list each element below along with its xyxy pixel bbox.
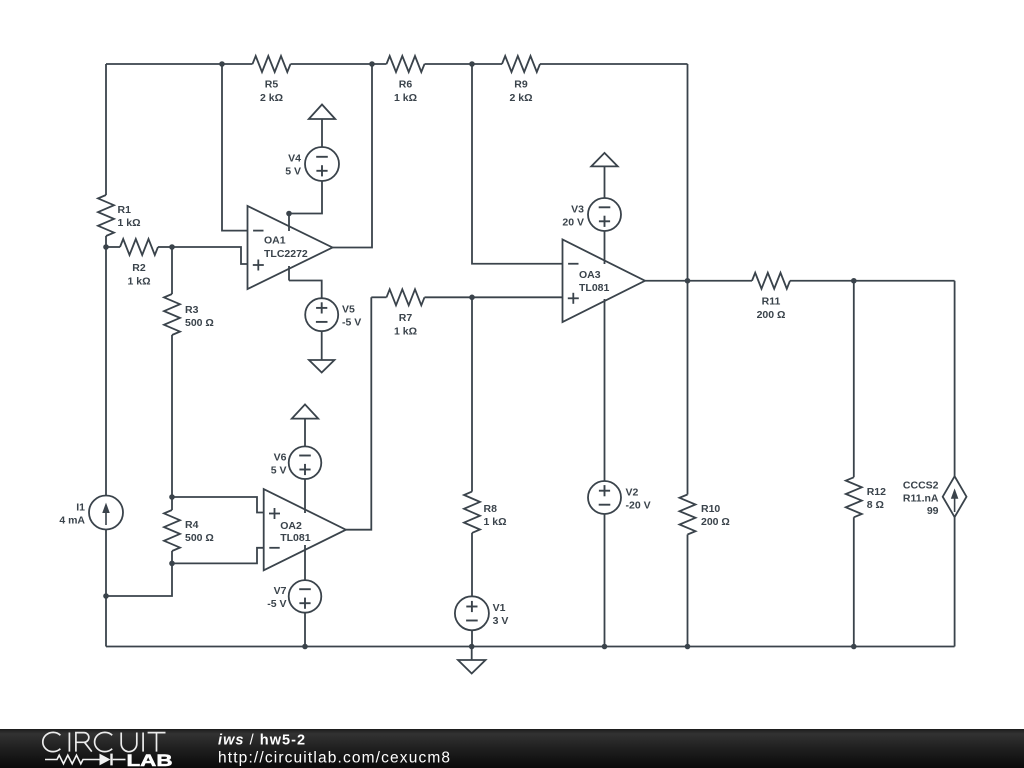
svg-text:4 mA: 4 mA bbox=[59, 514, 85, 526]
svg-text:99: 99 bbox=[927, 505, 939, 517]
svg-text:R11.nA: R11.nA bbox=[903, 492, 939, 504]
svg-text:-20 V: -20 V bbox=[626, 499, 651, 511]
svg-text:5 V: 5 V bbox=[285, 166, 301, 178]
svg-text:3 V: 3 V bbox=[493, 615, 509, 627]
svg-text:1 kΩ: 1 kΩ bbox=[394, 92, 417, 104]
svg-text:iws / hw5-2: iws / hw5-2 bbox=[218, 733, 306, 749]
svg-text:R2: R2 bbox=[132, 262, 146, 274]
svg-text:I1: I1 bbox=[76, 501, 85, 513]
svg-text:2 kΩ: 2 kΩ bbox=[509, 92, 532, 104]
svg-text:200 Ω: 200 Ω bbox=[701, 516, 730, 528]
svg-text:OA1: OA1 bbox=[264, 235, 286, 247]
svg-text:-5 V: -5 V bbox=[342, 317, 361, 329]
svg-text:R6: R6 bbox=[399, 79, 413, 91]
svg-text:CCCS2: CCCS2 bbox=[903, 479, 939, 491]
svg-text:V4: V4 bbox=[288, 153, 301, 165]
svg-text:1 kΩ: 1 kΩ bbox=[394, 325, 417, 337]
svg-text:V6: V6 bbox=[274, 452, 287, 464]
svg-text:TL081: TL081 bbox=[280, 532, 311, 544]
svg-text:2 kΩ: 2 kΩ bbox=[260, 92, 283, 104]
svg-text:LAB: LAB bbox=[127, 752, 173, 768]
svg-text:V3: V3 bbox=[571, 203, 584, 215]
svg-text:20 V: 20 V bbox=[562, 216, 584, 228]
svg-text:R10: R10 bbox=[701, 503, 720, 515]
svg-text:TL081: TL081 bbox=[579, 282, 610, 294]
svg-text:1 kΩ: 1 kΩ bbox=[484, 516, 507, 528]
svg-text:8 Ω: 8 Ω bbox=[867, 499, 884, 511]
svg-text:1 kΩ: 1 kΩ bbox=[118, 217, 141, 229]
svg-text:OA3: OA3 bbox=[579, 269, 601, 281]
svg-text:V1: V1 bbox=[493, 602, 506, 614]
svg-text:V2: V2 bbox=[626, 486, 639, 498]
svg-text:R11: R11 bbox=[762, 295, 781, 307]
svg-text:500 Ω: 500 Ω bbox=[185, 532, 214, 544]
svg-text:R7: R7 bbox=[399, 312, 413, 324]
svg-text:R3: R3 bbox=[185, 304, 199, 316]
svg-text:TLC2272: TLC2272 bbox=[264, 248, 308, 260]
svg-text:R9: R9 bbox=[514, 79, 528, 91]
svg-text:-5 V: -5 V bbox=[267, 598, 286, 610]
svg-text:V5: V5 bbox=[342, 304, 355, 316]
svg-text:R8: R8 bbox=[484, 503, 498, 515]
svg-text:200 Ω: 200 Ω bbox=[757, 309, 786, 321]
svg-text:5 V: 5 V bbox=[271, 465, 287, 477]
svg-text:R4: R4 bbox=[185, 519, 199, 531]
svg-text:500 Ω: 500 Ω bbox=[185, 317, 214, 329]
svg-text:1 kΩ: 1 kΩ bbox=[127, 275, 150, 287]
svg-text:R1: R1 bbox=[118, 204, 132, 216]
svg-text:V7: V7 bbox=[274, 585, 287, 597]
svg-text:OA2: OA2 bbox=[280, 520, 302, 532]
svg-text:http://circuitlab.com/cexucm8: http://circuitlab.com/cexucm8 bbox=[218, 750, 451, 767]
svg-text:R12: R12 bbox=[867, 486, 886, 498]
svg-text:R5: R5 bbox=[265, 79, 279, 91]
